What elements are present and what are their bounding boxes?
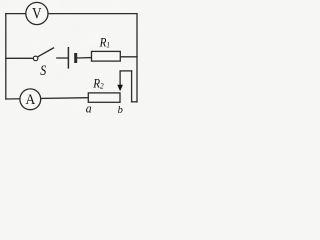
rheostat R2 box xyxy=(88,93,120,102)
svg-text:b: b xyxy=(118,104,124,114)
wire: middle row battery to R1 xyxy=(77,57,92,59)
wire: bottom horizontal (ammeter row) xyxy=(6,98,89,99)
battery cell xyxy=(68,47,75,69)
wire: bottom-right connector xyxy=(132,101,137,103)
wire: middle row switch to battery xyxy=(57,57,69,59)
wire: middle row left segment to switch xyxy=(6,57,34,59)
voltmeter V xyxy=(26,2,48,24)
wire: right vertical xyxy=(136,14,138,102)
wire: slider-path right vertical xyxy=(131,71,133,102)
resistor R1 box xyxy=(92,51,121,61)
wire: top horizontal xyxy=(6,13,137,15)
svg-text:S: S xyxy=(40,62,46,78)
wire: left vertical xyxy=(5,14,7,99)
slider arrow xyxy=(117,71,123,91)
svg-text:V: V xyxy=(32,5,42,22)
wire: slider horizontal at top xyxy=(120,70,132,72)
svg-text:A: A xyxy=(26,92,36,107)
ammeter A xyxy=(20,89,41,110)
svg-text:a: a xyxy=(86,101,92,114)
switch S xyxy=(33,48,54,79)
wire: middle row R1 to right vertical xyxy=(120,56,137,58)
